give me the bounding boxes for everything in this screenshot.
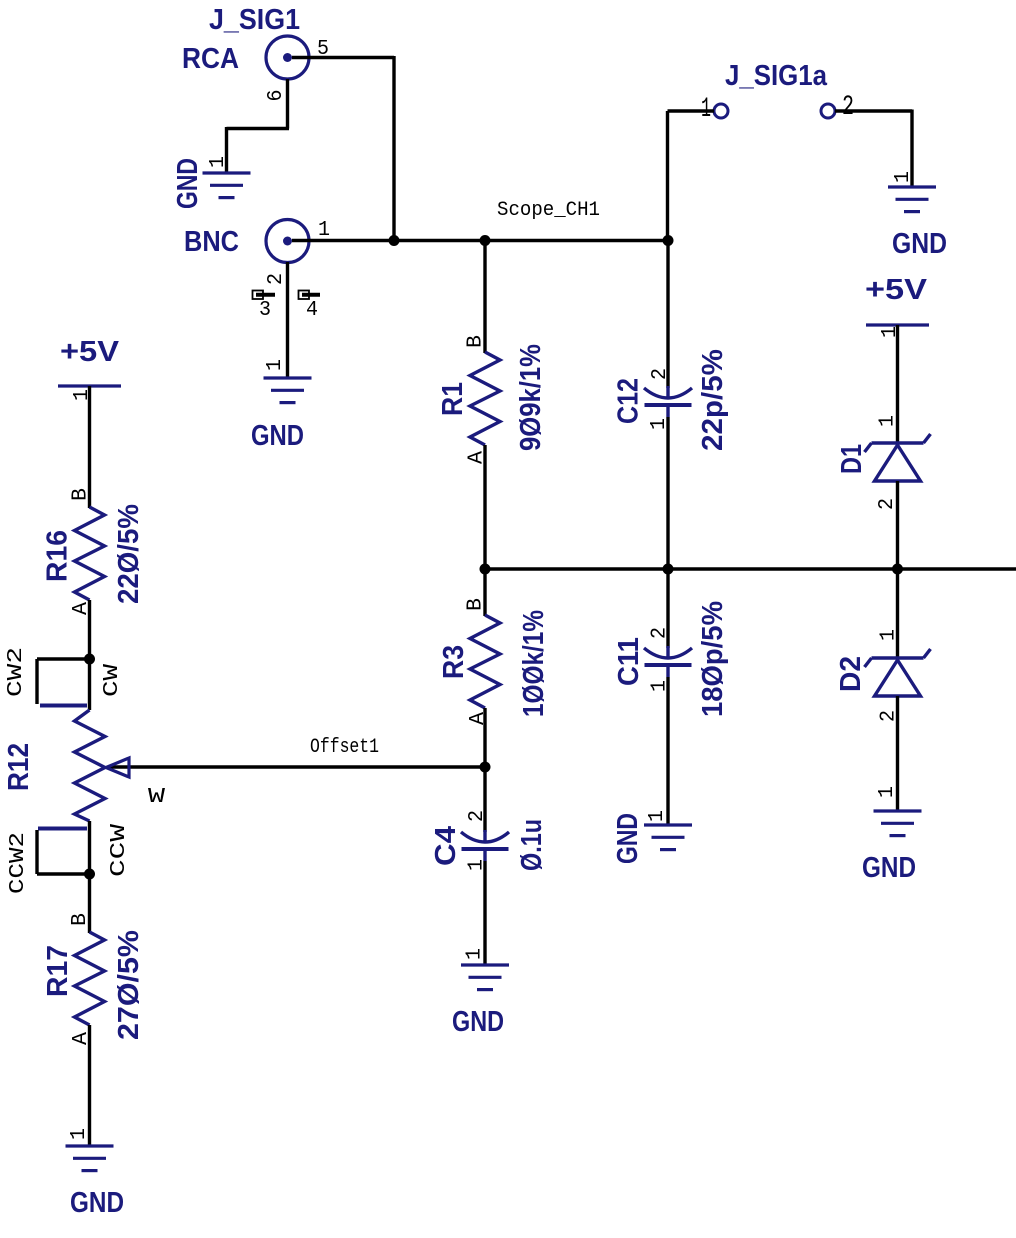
BNC jack J_SIG1 circle <box>266 220 309 263</box>
wire CW node to CW2 <box>37 659 91 704</box>
svg-text:+5V: +5V <box>865 274 928 306</box>
svg-text:Scope_CH1: Scope_CH1 <box>497 199 600 222</box>
svg-text:GND: GND <box>70 1187 124 1219</box>
svg-text:2: 2 <box>649 627 672 639</box>
diode D2 designator <box>835 656 867 692</box>
wire bus to right edge <box>485 567 1016 570</box>
wire node to C12 <box>666 241 669 389</box>
svg-text:RCA: RCA <box>182 43 239 75</box>
RCA jack label <box>182 43 239 75</box>
resistor R17 designator <box>42 945 74 997</box>
pin 2 label D2 <box>878 710 901 722</box>
pin 4 label <box>306 299 318 322</box>
pin 1 label RCA ground <box>207 156 230 168</box>
svg-text:R3: R3 <box>438 645 470 679</box>
resistor R1 <box>470 352 500 445</box>
ground symbol BNC <box>264 378 312 403</box>
svg-text:B: B <box>465 598 488 611</box>
wire +5V to D1 <box>896 325 899 444</box>
connector CCW2 pin bar <box>38 827 87 831</box>
svg-text:1: 1 <box>646 810 669 822</box>
capacitor C11 designator <box>613 637 645 686</box>
svg-text:C12: C12 <box>613 378 645 424</box>
pin 1 label C4 <box>466 859 489 871</box>
wire CCW node to R17 <box>88 874 91 933</box>
connector J_SIG1 label <box>209 4 300 36</box>
junction node R1 top <box>480 235 491 246</box>
pin 1 label +5V right <box>879 326 902 338</box>
svg-text:6: 6 <box>265 90 288 102</box>
ground symbol C11 <box>644 825 692 850</box>
svg-text:R17: R17 <box>42 945 74 997</box>
pin CW label <box>101 663 124 697</box>
resistor R1 value <box>515 344 547 451</box>
GND label C4 ground <box>452 1006 504 1038</box>
+5V power symbol left <box>58 384 121 387</box>
wire Offset1 from wiper <box>110 765 485 768</box>
pin 3 label <box>259 299 271 322</box>
svg-text:1: 1 <box>878 629 901 641</box>
svg-text:3: 3 <box>259 299 271 322</box>
GND label RCA ground <box>172 158 204 209</box>
resistor R3 value <box>518 610 550 717</box>
GND label R17 ground <box>70 1187 124 1219</box>
pin 1 label R17 ground <box>68 1128 91 1140</box>
svg-text:J_SIG1a: J_SIG1a <box>725 60 828 92</box>
connector CCW2 label <box>7 832 30 894</box>
diode D1 designator <box>836 444 868 474</box>
pin 1 label D2 <box>878 629 901 641</box>
svg-text:C4: C4 <box>430 826 462 866</box>
pin A label R1 <box>466 451 489 464</box>
svg-text:GND: GND <box>251 420 304 452</box>
pin 2 label C11 <box>649 627 672 639</box>
pin 3 stub BNC <box>253 291 276 300</box>
svg-text:CW: CW <box>101 663 124 697</box>
svg-text:GND: GND <box>612 813 644 864</box>
svg-text:BNC: BNC <box>184 226 239 258</box>
pin 1 label D2 ground <box>876 786 899 798</box>
pin 2 label J_SIG1a <box>842 92 854 123</box>
junction node C12 column <box>663 235 674 246</box>
wire C4 to ground <box>483 861 486 964</box>
pin 2 label C12 <box>649 368 672 380</box>
pin 1 label C4 ground <box>464 948 487 960</box>
pin B label R1 <box>465 335 488 348</box>
svg-text:27Ø/5%: 27Ø/5% <box>113 930 145 1040</box>
svg-text:R1: R1 <box>437 382 469 416</box>
pin 2 label C4 <box>466 810 489 822</box>
wire down to RCA ground <box>225 127 228 172</box>
wire J_SIG1a pin1 left <box>668 109 715 112</box>
svg-text:1: 1 <box>892 171 915 183</box>
pin 1 label J_SIG1a ground <box>892 171 915 183</box>
svg-text:1: 1 <box>207 156 230 168</box>
svg-text:CW2: CW2 <box>5 647 28 697</box>
+5V label right <box>865 274 928 306</box>
connector CW2 pin bar <box>40 704 87 708</box>
GND label J_SIG1a ground <box>892 228 947 260</box>
svg-text:2: 2 <box>265 273 288 285</box>
pin 1 label D1 <box>877 415 900 427</box>
wire down to J_SIG1a ground <box>910 110 913 187</box>
svg-text:D2: D2 <box>835 656 867 692</box>
svg-text:GND: GND <box>452 1006 504 1038</box>
svg-text:1: 1 <box>68 1128 91 1140</box>
svg-text:Offset1: Offset1 <box>310 736 379 759</box>
svg-text:1: 1 <box>877 415 900 427</box>
wire J_SIG1a pin2 right <box>835 109 912 112</box>
wire RCA pin6 down <box>286 79 289 129</box>
wire +5V to R16 <box>88 386 91 508</box>
wire Offset1 to C4 <box>483 767 486 832</box>
+5V label left <box>60 336 120 368</box>
svg-text:B: B <box>69 913 92 926</box>
svg-text:GND: GND <box>172 158 204 209</box>
capacitor C4 value <box>516 819 548 871</box>
svg-text:B: B <box>70 488 93 501</box>
zener diode D2 <box>865 649 931 696</box>
pin B label R3 <box>465 598 488 611</box>
pin 2 label D1 <box>876 498 899 510</box>
resistor R3 designator <box>438 645 470 679</box>
wire D2 to ground <box>896 696 899 810</box>
capacitor C12 value <box>697 349 729 451</box>
svg-text:R16: R16 <box>42 530 74 582</box>
svg-text:GND: GND <box>892 228 947 260</box>
pin A label R3 <box>467 712 490 725</box>
pin A label R17 <box>70 1032 93 1045</box>
pin CCW label <box>108 823 131 877</box>
wire R3 to Offset1 node <box>483 708 486 767</box>
pin A label R16 <box>70 602 93 615</box>
net label Scope_CH1 <box>497 199 600 222</box>
wire R17 to ground <box>88 1025 91 1145</box>
svg-text:CCW: CCW <box>108 823 131 877</box>
pin W label <box>148 786 166 809</box>
pin 1 circle J_SIG1a <box>714 104 728 118</box>
svg-text:R12: R12 <box>3 743 35 791</box>
capacitor C4 designator <box>430 826 462 866</box>
svg-text:2: 2 <box>876 498 899 510</box>
resistor R17 <box>75 932 105 1025</box>
svg-text:1: 1 <box>318 219 330 242</box>
wire bus to D2 <box>896 569 899 659</box>
svg-text:1: 1 <box>264 359 287 371</box>
potentiometer R12 designator <box>3 743 35 791</box>
pin 5 label <box>317 38 329 61</box>
resistor R1 designator <box>437 382 469 416</box>
resistor R16 value <box>113 504 145 604</box>
capacitor C4 <box>461 830 509 861</box>
svg-text:1ØØk/1%: 1ØØk/1% <box>518 610 550 717</box>
connector CW2 label <box>5 647 28 697</box>
pin 4 stub BNC <box>299 291 321 300</box>
svg-text:1: 1 <box>464 948 487 960</box>
pin 1 label BNC ground <box>264 359 287 371</box>
RCA jack J_SIG1 circle <box>266 36 309 79</box>
svg-text:22Ø/5%: 22Ø/5% <box>113 504 145 604</box>
wire BNC pin1 net Scope_CH1 <box>292 239 668 242</box>
ground symbol RCA <box>203 173 251 198</box>
resistor R16 <box>75 507 105 600</box>
resistor R17 value <box>113 930 145 1040</box>
wire bus to C11 <box>666 569 669 648</box>
junction node bus C11 <box>663 564 674 575</box>
capacitor C12 designator <box>613 378 645 424</box>
junction node Offset1 <box>480 762 491 773</box>
GND label C11 ground <box>612 813 644 864</box>
wire left jog <box>227 127 290 130</box>
pin 1 label C11 <box>649 680 672 692</box>
svg-text:2: 2 <box>466 810 489 822</box>
svg-text:22p/5%: 22p/5% <box>697 349 729 451</box>
svg-text:Ø.1u: Ø.1u <box>516 819 548 871</box>
resistor R16 designator <box>42 530 74 582</box>
capacitor C11 <box>644 646 692 677</box>
wire bus to R3 <box>483 569 486 616</box>
wire BNC pin2 down <box>286 262 289 378</box>
pin 2 label BNC <box>265 273 288 285</box>
wire RCA pin5 to corner <box>292 56 394 59</box>
ground symbol D2 <box>874 811 922 836</box>
resistor R3 <box>470 615 500 708</box>
BNC jack label <box>184 226 239 258</box>
wire C11 to ground <box>666 677 669 824</box>
wire R16 to CW node <box>88 600 91 710</box>
pin B label R16 <box>70 488 93 501</box>
resistor R12 potentiometer <box>75 710 106 821</box>
zener diode D1 <box>865 434 931 481</box>
connector J_SIG1a label <box>725 60 828 92</box>
junction node CCW <box>84 869 95 880</box>
wire pot bottom to CCW node <box>88 821 91 874</box>
junction node RCA wire <box>389 235 400 246</box>
pin 1 label C11 ground <box>646 810 669 822</box>
wire R1 to bus <box>483 445 486 569</box>
svg-text:CCW2: CCW2 <box>7 832 30 894</box>
wire D1 to bus <box>896 481 899 569</box>
svg-text:J_SIG1: J_SIG1 <box>209 4 300 36</box>
svg-text:W: W <box>148 786 166 809</box>
pin 1 label +5V left <box>71 389 94 401</box>
pin 1 label J_SIG1a <box>701 94 711 125</box>
svg-text:9Ø9k/1%: 9Ø9k/1% <box>515 344 547 451</box>
svg-text:GND: GND <box>862 852 916 884</box>
capacitor C11 value <box>697 601 729 717</box>
junction node CW <box>84 654 95 665</box>
junction node bus R3 <box>480 564 491 575</box>
pin B label R17 <box>69 913 92 926</box>
pin 2 circle J_SIG1a <box>821 104 835 118</box>
wire C12 to bus <box>666 417 669 569</box>
capacitor C12 <box>644 386 692 417</box>
potentiometer R12 wiper arrow <box>106 758 129 777</box>
+5V power symbol right <box>866 323 929 326</box>
wire J_SIG1a pin1 down to node <box>666 111 669 241</box>
net label Offset1 <box>310 736 379 759</box>
svg-text:18Øp/5%: 18Øp/5% <box>697 601 729 717</box>
svg-text:2: 2 <box>842 92 854 123</box>
svg-text:4: 4 <box>306 299 318 322</box>
svg-text:+5V: +5V <box>60 336 120 368</box>
pin 6 label <box>265 90 288 102</box>
svg-text:D1: D1 <box>836 444 868 474</box>
ground symbol J_SIG1a <box>888 187 936 212</box>
GND label D2 ground <box>862 852 916 884</box>
wire corner down to node <box>392 56 395 241</box>
ground symbol C4 <box>461 965 509 990</box>
ground symbol R17 <box>66 1146 114 1171</box>
svg-text:2: 2 <box>649 368 672 380</box>
pin 1 label C12 <box>648 418 671 430</box>
GND label BNC ground <box>251 420 304 452</box>
pin 1 label BNC <box>318 219 330 242</box>
wire CCW node to CCW2 <box>37 830 91 874</box>
wire node to R1 <box>483 241 486 354</box>
junction node bus D2 <box>892 564 903 575</box>
svg-text:1: 1 <box>876 786 899 798</box>
svg-text:B: B <box>465 335 488 348</box>
svg-text:C11: C11 <box>613 637 645 686</box>
